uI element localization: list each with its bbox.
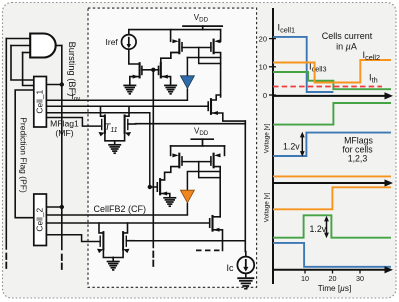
svg-text:20: 20 [329,274,337,283]
svg-text:CellFB2 (CF): CellFB2 (CF) [94,204,147,214]
wire AND input 3 [23,52,31,54]
curve CF3 green panel3 [273,215,391,237]
wire P1 P2 gate tie [182,48,221,76]
transistor P4 [224,146,226,156]
svg-text:Bursting (BF): Bursting (BF) [67,42,77,97]
wire AND output to BF line [57,45,62,47]
curve Icell3 green [273,72,391,89]
tick 20 [332,270,334,274]
svg-text:0: 0 [263,91,267,100]
wire PF chain Cell_1 to Cell_2 [15,90,34,218]
current arrow blue triangle [180,76,194,89]
wire beta line to pair2 rail and N6 gate [46,222,209,224]
current source Ic [237,257,254,274]
axis tick 10 [269,66,276,68]
node junction BF-Cell_2 [60,205,64,209]
wire P2 drain to blue arrow [187,57,220,59]
wire bus 4 to Cell_1 [23,53,34,86]
svg-text:10: 10 [301,274,309,283]
wire blue arrow to Iov line [186,89,188,101]
transistor P3 [170,146,172,156]
wire Cell_2 to BF junction [46,206,61,208]
wire BF continuation dashes [61,255,63,270]
svg-text:Time [µs]: Time [µs] [318,284,352,293]
ground G2 [164,85,177,93]
wire ground stub [114,141,116,144]
wire bias line V1 down [152,70,154,248]
arrow T11 right source [125,132,131,136]
curve CF2 orange panel3 [273,187,391,209]
wire N5 gate lead [150,186,157,188]
transistor pair2 left [99,223,103,233]
wire W_gate T11 right to V3 [136,123,246,125]
wire Cell_1 to BF junction [46,84,61,86]
tick 30 [359,270,361,274]
wire L1 Iov current line [46,99,187,101]
svg-text:1,2,3: 1,2,3 [348,154,368,164]
ground G1 [123,85,136,93]
transistor N5 [157,179,170,197]
wire L2 to T11 rail and N3 gate [46,105,207,107]
curve MFlag1 blue panel2 [273,133,391,156]
cell block Cell_2 [34,194,47,246]
wire AND input 2 [11,45,30,47]
arrow P2 source [214,39,220,43]
arrow pair2 left source [97,249,103,253]
transistor P1 [171,30,182,59]
svg-text:Cell_2: Cell_2 [34,207,44,231]
arrow P1 source [172,39,178,43]
svg-text:Iref: Iref [106,37,119,47]
wire CF current line [46,214,187,216]
wire PF bus 1 [5,39,7,250]
cell block Cell_1 [34,77,47,128]
arrow pair2 right source [123,249,129,253]
wire V1 continuation dashes [152,252,154,267]
svg-text:in µA: in µA [336,42,357,52]
svg-text:Cell_1: Cell_1 [34,89,44,113]
wire L4 to T11 left gate [46,118,101,127]
wire VDD2 rail [171,145,225,147]
wire P3 P4 gate tie [182,161,211,163]
transistor P2 [211,30,221,97]
wire V3 vertical to Ic [244,121,247,257]
current arrow orange triangle [180,190,194,203]
ground pair2 [107,262,120,270]
curve Icell1 blue [273,37,333,92]
svg-text:(MF): (MF) [55,128,73,138]
svg-text:20: 20 [259,35,267,44]
x-axis panel1 [273,95,386,97]
x-axis panel3 time axis [273,269,386,271]
arrow N3 source [212,111,218,115]
wire AND input 1 [6,38,30,40]
transistor N2 [160,63,162,77]
wire Ic bottom stub [245,273,247,277]
curve Icell2 orange [273,60,391,83]
arrow P4 source [214,153,220,157]
transistor T11 left [101,106,105,116]
svg-text:MFlag1: MFlag1 [50,119,79,129]
plot y-axis [272,8,274,284]
axis tick 0 [269,94,276,96]
wire W_gate2 pair2 right gate to V3 [134,240,245,242]
inner dashed circuit box [88,8,257,287]
wire BF vertical line [61,46,63,250]
node junction mirror bias [151,68,155,72]
transistor pair2 right [123,223,127,233]
svg-text:1.2v: 1.2v [310,224,327,234]
wire bus1 continuation dashes [5,254,7,269]
arrow T11 left source [99,132,105,136]
wire PF bus 2 to Cell_1 [11,46,34,81]
ground T11 [108,145,121,153]
and-gate G1 body [30,34,56,58]
node junction BF-Cell_1 [60,82,64,86]
svg-text:Ic: Ic [227,263,235,273]
svg-text:Cells current: Cells current [322,31,373,41]
wire Iref top to VDD rail [129,30,221,35]
tick 10 [304,270,306,274]
transistor N1 [139,63,141,77]
wire L3 to N5 gate [46,113,149,187]
curve CF1 blue panel3 [273,243,391,267]
arrow N2 source [162,75,168,79]
svg-text:30: 30 [356,274,364,283]
transistor N3 [210,99,212,114]
arrow P3 source [172,153,178,157]
svg-text:10: 10 [259,63,267,72]
arrow N1 source [133,75,139,79]
wire P4 drain to orange arrow [187,172,220,191]
transistor T11 right [125,106,129,116]
wire gamma to pair2 left gate [46,235,100,242]
svg-text:Voltage [v]: Voltage [v] [264,193,271,223]
wire orange arrow to CF line [186,203,188,215]
threshold line Ith red dashed [273,86,382,88]
svg-text:Voltage [v]: Voltage [v] [264,124,271,154]
wire pair2 ground stub [112,258,114,261]
wire Iref bottom to N1 drain [129,49,140,64]
node junction N5 gate [148,185,152,189]
axis tick 20 [269,38,276,40]
ground G3 [163,198,176,206]
arrow N6 source [213,228,219,232]
ground G5 [237,278,254,288]
curve MFlag2 orange panel2 [273,175,391,177]
transistor N6 [211,216,213,231]
svg-text:1.2v: 1.2v [283,142,300,152]
arrow N5 source [161,192,167,196]
wire continuation dashes to more cells [196,249,220,251]
current source Iref [122,35,137,50]
curve MFlag3 green panel2 [273,103,391,125]
svg-text:Prediction Flag (PF): Prediction Flag (PF) [19,117,29,193]
x-axis panel2 [273,182,386,184]
